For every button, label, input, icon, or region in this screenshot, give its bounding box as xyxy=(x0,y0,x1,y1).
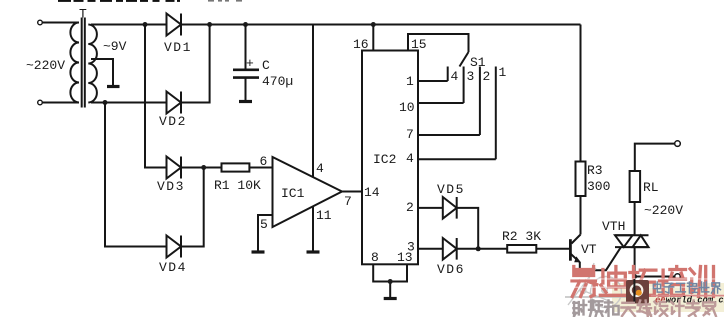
wire RL to triac xyxy=(634,202,636,235)
svg-text:~220V: ~220V xyxy=(26,58,65,73)
terminal right top xyxy=(675,141,681,147)
transistor VT xyxy=(569,239,572,261)
ground (IC1 pin11) xyxy=(307,250,320,253)
svg-text:3: 3 xyxy=(467,69,475,84)
svg-text:4: 4 xyxy=(406,151,414,166)
IC2 box xyxy=(362,51,418,265)
node junction VD2 cathode xyxy=(207,22,212,27)
capacitor C branch wire xyxy=(245,25,247,69)
svg-text:300: 300 xyxy=(587,179,610,194)
svg-text:4: 4 xyxy=(451,69,459,84)
svg-text:5: 5 xyxy=(260,217,268,232)
switch S1 wiper xyxy=(460,52,469,67)
diode VD1 xyxy=(167,14,182,36)
svg-text:RL: RL xyxy=(643,180,659,195)
IC2 pin2 wire xyxy=(418,207,443,209)
svg-text:+: + xyxy=(246,56,254,71)
svg-text:4: 4 xyxy=(316,161,324,176)
diode VD4 xyxy=(167,236,182,258)
node junction output xyxy=(632,274,637,279)
svg-text:~9V: ~9V xyxy=(103,39,127,54)
svg-text:VTH: VTH xyxy=(602,219,625,234)
capacitor C xyxy=(233,69,259,72)
top cut-off caption text fragments xyxy=(58,0,242,2)
watermark pink underline xyxy=(651,295,724,297)
wire to right terminal xyxy=(635,276,675,278)
node junction capacitor branch xyxy=(243,22,248,27)
watermark pale yellow block xyxy=(612,283,724,312)
resistor R2 xyxy=(507,245,536,253)
svg-text:~220V: ~220V xyxy=(644,203,683,218)
IC2 pin16 wire xyxy=(372,25,374,51)
wire secondary top to VD1 xyxy=(91,24,166,26)
svg-text:7: 7 xyxy=(406,127,414,142)
svg-text:VD5: VD5 xyxy=(437,182,465,197)
wire VD1 cathode along top rail xyxy=(181,24,581,26)
svg-text:VT: VT xyxy=(581,242,597,257)
IC1 pin4 wire from top rail xyxy=(312,25,314,177)
wire VD4 branch xyxy=(105,103,166,247)
VT emitter to triac gate xyxy=(580,247,621,270)
svg-text:15: 15 xyxy=(411,37,427,52)
wire terminal to RL xyxy=(635,144,675,171)
watermark text dian-zi-gong-cheng-shi-jie xyxy=(653,282,662,292)
svg-text:6: 6 xyxy=(260,154,268,169)
svg-text:C: C xyxy=(262,58,270,73)
transformer T primary winding xyxy=(70,23,79,103)
svg-text:11: 11 xyxy=(316,208,332,223)
center tap wire xyxy=(91,59,113,85)
wire xyxy=(42,22,79,24)
ground (IC2) xyxy=(384,297,397,300)
wire VD6 cathode to R2 xyxy=(457,248,508,250)
watermark text yi-di-tuo-pei-xun xyxy=(572,267,597,297)
op-amp IC1 xyxy=(273,157,343,227)
transformer core xyxy=(82,18,85,108)
wire R1 to IC1 pin6 xyxy=(249,167,272,169)
diode VD2 xyxy=(167,92,182,114)
switch contact 4 xyxy=(447,67,449,82)
ground (center tap) xyxy=(107,85,120,88)
resistor R3 xyxy=(576,162,586,197)
svg-text:2: 2 xyxy=(406,200,414,215)
svg-text:1: 1 xyxy=(499,65,507,80)
node junction VD5/VD6 xyxy=(476,246,481,251)
svg-text:13: 13 xyxy=(397,250,413,265)
svg-text:S1: S1 xyxy=(470,55,486,70)
svg-text:R3: R3 xyxy=(587,163,603,178)
svg-text:R1 10K: R1 10K xyxy=(214,178,261,193)
wire VD5 cathode xyxy=(457,208,479,249)
wire xyxy=(42,102,79,104)
wire IC1 output to IC2 pin14 xyxy=(342,191,362,193)
ground (capacitor) xyxy=(239,100,252,103)
svg-text:16: 16 xyxy=(353,37,369,52)
VT collector wire up to R3 xyxy=(580,196,582,235)
svg-text:2: 2 xyxy=(483,69,491,84)
watermark text she-pin-he-tian-xian-she-ji-zhuan-jia xyxy=(573,301,586,317)
IC1 pin5 wire xyxy=(258,215,273,251)
node junction IC2 pin16 branch xyxy=(371,22,376,27)
resistor RL xyxy=(630,171,641,202)
IC2 pin1 wire to contact4 xyxy=(418,80,448,82)
svg-text:IC1: IC1 xyxy=(281,186,305,201)
wire secondary bottom to VD2 xyxy=(91,102,166,104)
svg-text:R2 3K: R2 3K xyxy=(502,229,541,244)
wire VD3 cathode to node xyxy=(181,167,222,169)
svg-text:T: T xyxy=(79,7,87,22)
IC2 pin3 wire xyxy=(418,248,443,250)
svg-text:1: 1 xyxy=(406,74,414,89)
wire over logo xyxy=(633,279,635,303)
svg-text:8: 8 xyxy=(371,250,379,265)
resistor R1 xyxy=(222,163,250,171)
terminal right bottom xyxy=(675,274,681,280)
IC2 pin10 wire to contact3 xyxy=(418,102,464,104)
IC2 pin4 wire to contact1 xyxy=(418,158,496,160)
terminal bottom-left xyxy=(38,100,43,105)
svg-text:VD3: VD3 xyxy=(157,179,185,194)
node junction VD4 branch xyxy=(103,100,108,105)
svg-text:IC2: IC2 xyxy=(373,152,396,167)
diode VD5 xyxy=(443,197,457,219)
node junction at VD3 branch xyxy=(143,22,148,27)
watermark grey atom logo xyxy=(565,263,648,308)
svg-text:470µ: 470µ xyxy=(262,74,293,89)
svg-text:7: 7 xyxy=(344,194,352,209)
wire top rail down to R3 xyxy=(580,25,582,162)
ground (IC1 pin5) xyxy=(252,250,265,253)
diode VD6 xyxy=(443,238,457,260)
wire VD2 cathode up to top rail xyxy=(181,25,210,103)
svg-text:VD4: VD4 xyxy=(159,260,187,275)
svg-text:14: 14 xyxy=(364,185,380,200)
svg-text:VD2: VD2 xyxy=(159,114,187,129)
switch contact 3 xyxy=(463,67,465,104)
IC2 pin7 wire to contact2 xyxy=(418,134,480,136)
terminal top-left xyxy=(38,20,43,25)
switch contact 2 xyxy=(479,67,481,136)
svg-text:VD6: VD6 xyxy=(437,262,465,277)
wire R2 to VT base xyxy=(536,248,569,250)
wire VD3 branch from top rail xyxy=(145,25,166,168)
IC2 pin15 wire to switch wiper xyxy=(408,34,469,52)
svg-text:VD1: VD1 xyxy=(164,40,192,55)
watermark eeworld logo square xyxy=(626,280,649,304)
transformer T secondary winding xyxy=(88,25,97,103)
watermark eeworld cjk text xyxy=(653,282,720,293)
scanline streaks xyxy=(566,278,718,279)
node junction VD3/VD4 cathodes xyxy=(201,165,206,170)
IC2 pin8 pin13 wires to ground xyxy=(373,264,407,297)
svg-text:10: 10 xyxy=(399,100,415,115)
diode VD3 xyxy=(167,157,182,179)
wire VD4 cathode up to node xyxy=(181,168,204,247)
IC1 pin11 wire xyxy=(312,207,314,252)
switch contact 1 xyxy=(495,67,497,160)
wire triac down xyxy=(634,247,636,276)
